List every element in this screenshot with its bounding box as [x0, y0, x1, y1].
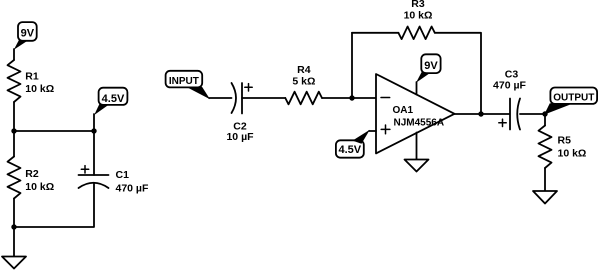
node C junction dot (bottom-left): [11, 224, 16, 229]
node D junction dot (feedback tap): [349, 95, 354, 100]
wire node A to R2: [13, 131, 15, 157]
ground (right): [533, 191, 557, 204]
op-amp U1 triangle: [376, 74, 455, 153]
capacitor C1 (polarized): [79, 166, 109, 188]
svg-text:10 kΩ: 10 kΩ: [558, 148, 587, 160]
svg-text:R2: R2: [25, 168, 39, 180]
wire R4 to op-amp inverting input: [322, 97, 376, 99]
wire node C to C1 bottom: [14, 183, 94, 227]
wire INPUT to C2: [209, 97, 232, 99]
node OUTPUT junction dot: [542, 111, 547, 116]
wire op-amp output to C3: [455, 113, 510, 115]
wire R3 to feedback right vertical: [435, 33, 481, 114]
wire 9V flag to R1: [13, 49, 15, 60]
wire R1 to node A: [13, 102, 15, 131]
resistor R5: [539, 126, 552, 169]
wire feedback top-left to R3: [352, 32, 398, 34]
ground (left): [2, 257, 26, 269]
op-amp non-inverting marker: [381, 125, 390, 134]
svg-text:OUTPUT: OUTPUT: [553, 93, 594, 104]
wire C2 to R4: [242, 97, 285, 99]
resistor R3: [398, 27, 434, 40]
svg-text:INPUT: INPUT: [169, 76, 199, 87]
svg-text:5 kΩ: 5 kΩ: [292, 75, 315, 87]
wire node B to C1 top: [93, 131, 95, 175]
svg-text:470 µF: 470 µF: [493, 80, 526, 92]
svg-text:4.5V: 4.5V: [102, 93, 125, 105]
resistor R1: [8, 60, 21, 102]
node 9V flag (op-amp supply): [416, 54, 441, 83]
node 4.5V flag (left): [94, 88, 127, 115]
svg-text:R5: R5: [558, 134, 572, 146]
node E junction dot (output/feedback): [478, 111, 483, 116]
wire op-amp V- pin to ground: [416, 133, 418, 160]
wire 4.5V flag to node B: [93, 114, 95, 131]
svg-text:R4: R4: [297, 64, 311, 76]
node INPUT flag: [166, 71, 210, 99]
svg-text:NJM4556A: NJM4556A: [394, 117, 445, 128]
capacitor C3 (polarized): [499, 99, 520, 130]
svg-text:10 kΩ: 10 kΩ: [25, 83, 54, 95]
resistor R2: [8, 157, 21, 199]
node 9V flag (top-left): [14, 22, 37, 50]
wire feedback left vertical: [351, 33, 353, 98]
svg-text:C1: C1: [116, 169, 130, 181]
node B junction dot (4.5V node): [91, 128, 96, 133]
svg-text:R1: R1: [25, 70, 39, 82]
ground (op-amp): [405, 160, 429, 172]
wire 4.5V flag to non-inverting input: [369, 130, 376, 132]
resistor R4: [285, 92, 322, 105]
svg-text:10 kΩ: 10 kΩ: [404, 9, 433, 21]
wire R2 to node C: [13, 199, 15, 228]
wire node A to node B (horizontal): [14, 130, 94, 132]
svg-text:9V: 9V: [424, 60, 438, 72]
wire 9V flag to op-amp V+ pin: [416, 82, 418, 95]
capacitor C2 (polarized): [232, 83, 253, 114]
wire R5 to ground: [544, 168, 546, 191]
svg-text:10 kΩ: 10 kΩ: [25, 181, 54, 193]
svg-text:9V: 9V: [21, 27, 35, 39]
svg-text:470 µF: 470 µF: [116, 183, 149, 195]
op-amp inverting marker: [381, 97, 390, 99]
svg-text:OA1: OA1: [393, 105, 414, 116]
wire node C to ground: [13, 227, 15, 257]
wire C3 to node OUTPUT: [520, 113, 545, 115]
svg-text:4.5V: 4.5V: [338, 144, 361, 156]
svg-text:10 µF: 10 µF: [226, 131, 254, 143]
node A junction dot (left rail / divider mid): [11, 128, 16, 133]
node 4.5V flag (op-amp bias): [336, 130, 370, 158]
wire OUTPUT node to R5: [544, 114, 546, 126]
node OUTPUT flag: [544, 88, 597, 115]
